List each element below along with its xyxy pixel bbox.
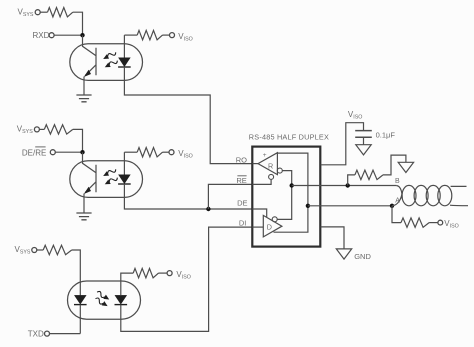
wire RO pin to R output [252,163,258,165]
resistor R6 (VISO pull-up, opto3) [133,268,158,277]
wire DE pin to D enable [252,209,266,217]
wire R + input to A net [277,153,308,206]
node DE/RE junction [80,150,84,154]
light arrows inside U2 [102,167,117,178]
wire U2 LED anode to R4 [124,151,137,153]
wire U1 LED anode to R2 [124,34,137,36]
svg-text:TXD: TXD [28,329,44,338]
terminal VISO (opto2) [169,150,174,155]
svg-text:RS-485 HALF DUPLEX: RS-485 HALF DUPLEX [249,133,329,142]
inverting input bubble on R [277,168,282,173]
wire R2 to VISO terminal [163,34,170,36]
terminal VISO (A bias) [438,220,443,225]
resistor R7 (B bias) [355,170,383,179]
svg-text:B: B [395,178,400,185]
optocoupler U1 body [70,44,143,81]
wire R3 to DE/RE node [73,129,83,152]
RS-485 transceiver U4 box [252,147,320,247]
wire VSYS3 to R5 [37,249,43,251]
wire U2 emitter to ground [83,194,85,214]
node B net junction [290,183,294,187]
wire DE node to RE row [208,184,252,209]
wire D output to A net [274,206,308,232]
wire U3 LED cathode to TXD [79,305,81,334]
node RXD junction [80,33,84,37]
ground (system, opto1) [76,95,91,102]
svg-text:RXD: RXD [33,31,50,40]
wire R6 to VISO terminal [159,272,168,274]
capacitor C1 0.1uF [355,131,372,138]
resistor R8 (A bias) [401,218,429,227]
wire A node to R8 [392,206,401,223]
wire U3 photodiode cathode to DI pin [121,227,253,331]
terminal VISO (opto3) [167,271,172,276]
ground (isolated, under C1) [356,145,371,155]
phototransistor inside U2 [83,152,97,192]
svg-text:DE/RE: DE/RE [22,149,46,158]
LED inside U3 (system side) [75,295,86,304]
LED inside U1 (isolated side) [123,35,125,58]
svg-text:DI: DI [239,218,247,227]
svg-text:+: + [263,152,267,159]
resistor R3 (VSYS pull-up, DE/RE node) [44,125,73,134]
wire U3 photodiode anode to R6 [121,273,133,295]
enable bubble on D [272,217,277,222]
ground (system, opto2) [76,213,91,220]
twisted pair cable [392,185,468,205]
svg-text:R: R [268,161,273,170]
node B bias junction [346,183,350,187]
svg-text:0.1μF: 0.1μF [376,131,396,140]
svg-text:RO: RO [236,155,247,164]
wire A pin to bus [308,205,392,207]
wire R5 to U3 LED anode [72,250,81,295]
optocoupler U2 body [70,161,143,198]
resistor R2 (VISO pull-up, opto1) [137,30,162,39]
optocoupler U3 body [68,281,141,319]
wire R7 to iso ground [383,155,406,175]
wire R4 to VISO terminal [163,151,170,153]
wire U1 emitter to ground [83,77,85,96]
wire TXD to U3 LED cathode [50,333,81,335]
light arrows inside U3 [96,290,111,302]
wire DE/RE to node [55,151,82,153]
svg-text:GND: GND [354,252,371,261]
resistor R4 (VISO pull-up, opto2) [137,148,162,157]
svg-text:RE: RE [236,176,246,185]
wire GND pin [321,227,344,249]
wire RE pin to R enable bubble [252,179,271,184]
ground (isolated, B bias) [398,162,413,172]
wire B pin to bus [292,185,397,187]
LED inside U2 (isolated side) [123,152,125,175]
node A net junction [306,204,310,208]
resistor R1 (VSYS pull-up, RXD node) [48,8,73,17]
wire VCC pin to VISO supply [321,123,364,165]
ground GND (transceiver) [336,249,351,259]
wire R - input / D enable to B net [277,171,292,220]
wire DI pin to D input [252,226,263,228]
svg-text:D: D [267,223,272,232]
wire U1 LED cathode to RO pin [124,67,252,164]
phototransistor inside U1 [83,35,97,75]
node A bias junction [390,204,394,208]
wire VSYS1 to R1 [40,11,47,13]
receiver R triangle U4 [258,153,277,175]
wire B node to R7 [348,175,355,186]
wire U2 LED cathode to DE row [124,184,252,209]
wire RXD to node [54,34,82,36]
photodiode inside U3 (isolated side) [115,295,126,304]
enable bubble on R (RE) [269,174,274,179]
terminal VISO (opto1) [170,33,175,38]
wire VSYS2 to R3 [39,128,44,130]
svg-text:DE: DE [237,199,247,208]
wire R1 to RXD node [73,12,83,35]
wire R8 to VISO terminal [429,222,438,224]
node DE junction [206,207,210,211]
light arrows inside U1 [102,50,117,61]
driver D triangle U4 [263,215,282,237]
resistor R5 (VSYS series, TXD LED) [43,245,71,254]
